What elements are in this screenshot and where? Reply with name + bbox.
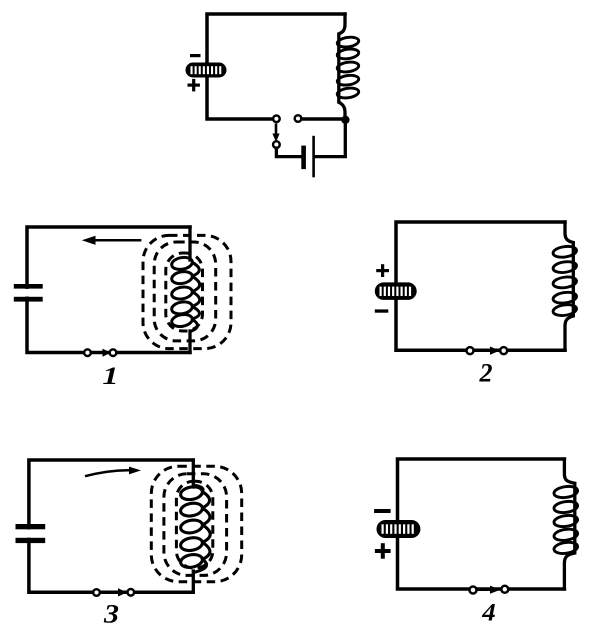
svg-text:2: 2: [479, 359, 493, 388]
switch S3 contact a: [93, 589, 100, 596]
capacitor C3 bottom plate: [16, 538, 46, 543]
capacitor C1 bottom plate: [14, 297, 43, 302]
wire: circuit-3 right side entry to coil: [192, 460, 195, 487]
wire: top-circuit bottom segment from switch contact to junction: [301, 117, 346, 121]
coil L4 spine (right side of circuit 4): [564, 459, 574, 589]
capacitor C3 top plate: [16, 524, 46, 529]
coil L1 turn 1: [171, 256, 193, 271]
coil L1 front arc 2: [192, 276, 200, 291]
wire: circuit-4 left/top/bottom sides: [398, 459, 565, 589]
field line (outer dashed loop) around coil L3: [151, 466, 241, 581]
coil L4 turn 1: [553, 485, 578, 499]
coil L0 turn 4: [337, 74, 360, 86]
wire: circuit-3 top/left/bottom sides: [29, 460, 193, 592]
svg-text:1: 1: [102, 362, 118, 390]
capacitor C1 gap mask: [24, 289, 31, 297]
coil L1 front arc 5 (exit): [190, 319, 197, 331]
label: plus sign of C0: [188, 79, 200, 92]
coil L1 turn 4: [171, 300, 193, 315]
switch S2 arrow: [475, 347, 500, 355]
coil L3 front arc 1 (entry): [193, 485, 203, 492]
coil L4 turn 3: [553, 514, 578, 528]
current arrow (pointing left) in circuit 1: [82, 236, 142, 245]
coil L3 turn 3: [180, 518, 204, 534]
label: plus sign of C4: [375, 543, 391, 559]
wire: from lower contact to battery: [276, 148, 301, 157]
coil L2 spine (right side of circuit 2): [565, 222, 573, 350]
switch S0 contact b: [295, 115, 302, 122]
switch S0 arrow (thrown down): [272, 124, 279, 143]
field line (middle dashed loop) around coil L3: [164, 474, 227, 576]
node: junction dot: [341, 116, 349, 124]
coil L3 front arc 2: [202, 492, 210, 509]
field line (inner dashed loop) around coil L3: [176, 481, 212, 568]
coil L3 turn 1: [180, 485, 204, 501]
coil L4 turn 2: [553, 500, 578, 514]
coil L1 front arc 4: [192, 307, 200, 320]
switch S4 contact a: [470, 587, 477, 594]
capacitor C3 gap mask: [25, 529, 32, 537]
wire: circuit-1 top/left/bottom sides: [27, 227, 190, 353]
coil L1 turn 3: [171, 285, 193, 300]
switch S1 contact b: [110, 349, 117, 356]
coil L3 front arc 5: [202, 542, 210, 559]
coil L0 turn 2: [337, 48, 360, 60]
coil L2 turn 3: [552, 276, 577, 290]
coil L0 turn 3: [337, 61, 360, 73]
coil L1 front arc 1: [192, 262, 200, 276]
coil L4 turn 5: [553, 541, 578, 555]
svg-text:3: 3: [103, 600, 119, 629]
coil L3 front arc 4: [203, 525, 211, 543]
coil L4 turn 4: [553, 528, 578, 542]
capacitor C1 top plate: [14, 284, 43, 289]
coil L2 turn 1: [552, 245, 577, 259]
label: minus sign of C2: [375, 309, 389, 312]
switch S3 contact b: [128, 589, 135, 596]
switch S3 arrow: [101, 588, 127, 596]
label: minus sign of C0: [190, 54, 201, 57]
wire: circuit-1 right side exit from coil: [188, 331, 191, 353]
capacitor C0 (hatched sausage body): [186, 63, 227, 78]
current arrow (pointing right, curved) in circuit 3: [85, 467, 141, 477]
switch S0 contact a: [273, 116, 280, 123]
switch S4 contact b: [501, 586, 508, 593]
coil L2 turn 2: [552, 260, 577, 274]
field line (inner dashed loop) around coil L1: [166, 253, 203, 331]
battery B1 long plate: [312, 136, 315, 178]
coil L3 turn 2: [180, 502, 204, 518]
label: plus sign of C2: [376, 264, 389, 277]
coil L1 turn 5: [171, 313, 193, 328]
capacitor C4 (hatched sausage body): [377, 520, 421, 538]
coil L0 turn 5: [337, 87, 360, 99]
switch S4 arrow: [477, 586, 500, 594]
coil L3 front arc 6 (exit): [193, 559, 206, 572]
coil L0 spine (right side of top circuit): [339, 14, 345, 120]
wire: circuit-2 left/top/bottom sides: [396, 222, 565, 350]
switch S2 contact b: [500, 347, 507, 354]
coil L3 turn 4: [180, 536, 204, 552]
switch S2 contact a: [467, 347, 474, 354]
coil L2 turn 4: [552, 291, 577, 305]
switch S1 arrow: [91, 349, 111, 357]
wire: circuit-1 right side entry to coil: [188, 227, 191, 260]
coil L0 turn 1: [337, 36, 360, 48]
switch S0 contact c (lower): [273, 141, 280, 148]
wire: from battery to junction: [315, 120, 345, 157]
coil L2 turn 5: [552, 303, 577, 317]
coil L1 front arc 3: [192, 292, 200, 307]
switch S1 contact a: [84, 349, 91, 356]
capacitor C2 (hatched sausage body): [375, 282, 417, 300]
coil L1 turn 2: [171, 270, 193, 285]
field line (outer dashed loop) around coil L1: [143, 235, 231, 348]
wire: circuit-3 right side exit from coil: [192, 571, 195, 592]
field line (middle dashed loop) around coil L1: [154, 242, 216, 341]
wire: top-circuit left/top/bottom sides: [207, 14, 345, 119]
svg-text:4: 4: [481, 600, 496, 627]
battery B1 short plate: [301, 146, 306, 170]
coil L3 turn 5: [180, 553, 204, 569]
label: minus sign of C4: [374, 509, 391, 513]
coil L3 front arc 3: [202, 508, 210, 525]
